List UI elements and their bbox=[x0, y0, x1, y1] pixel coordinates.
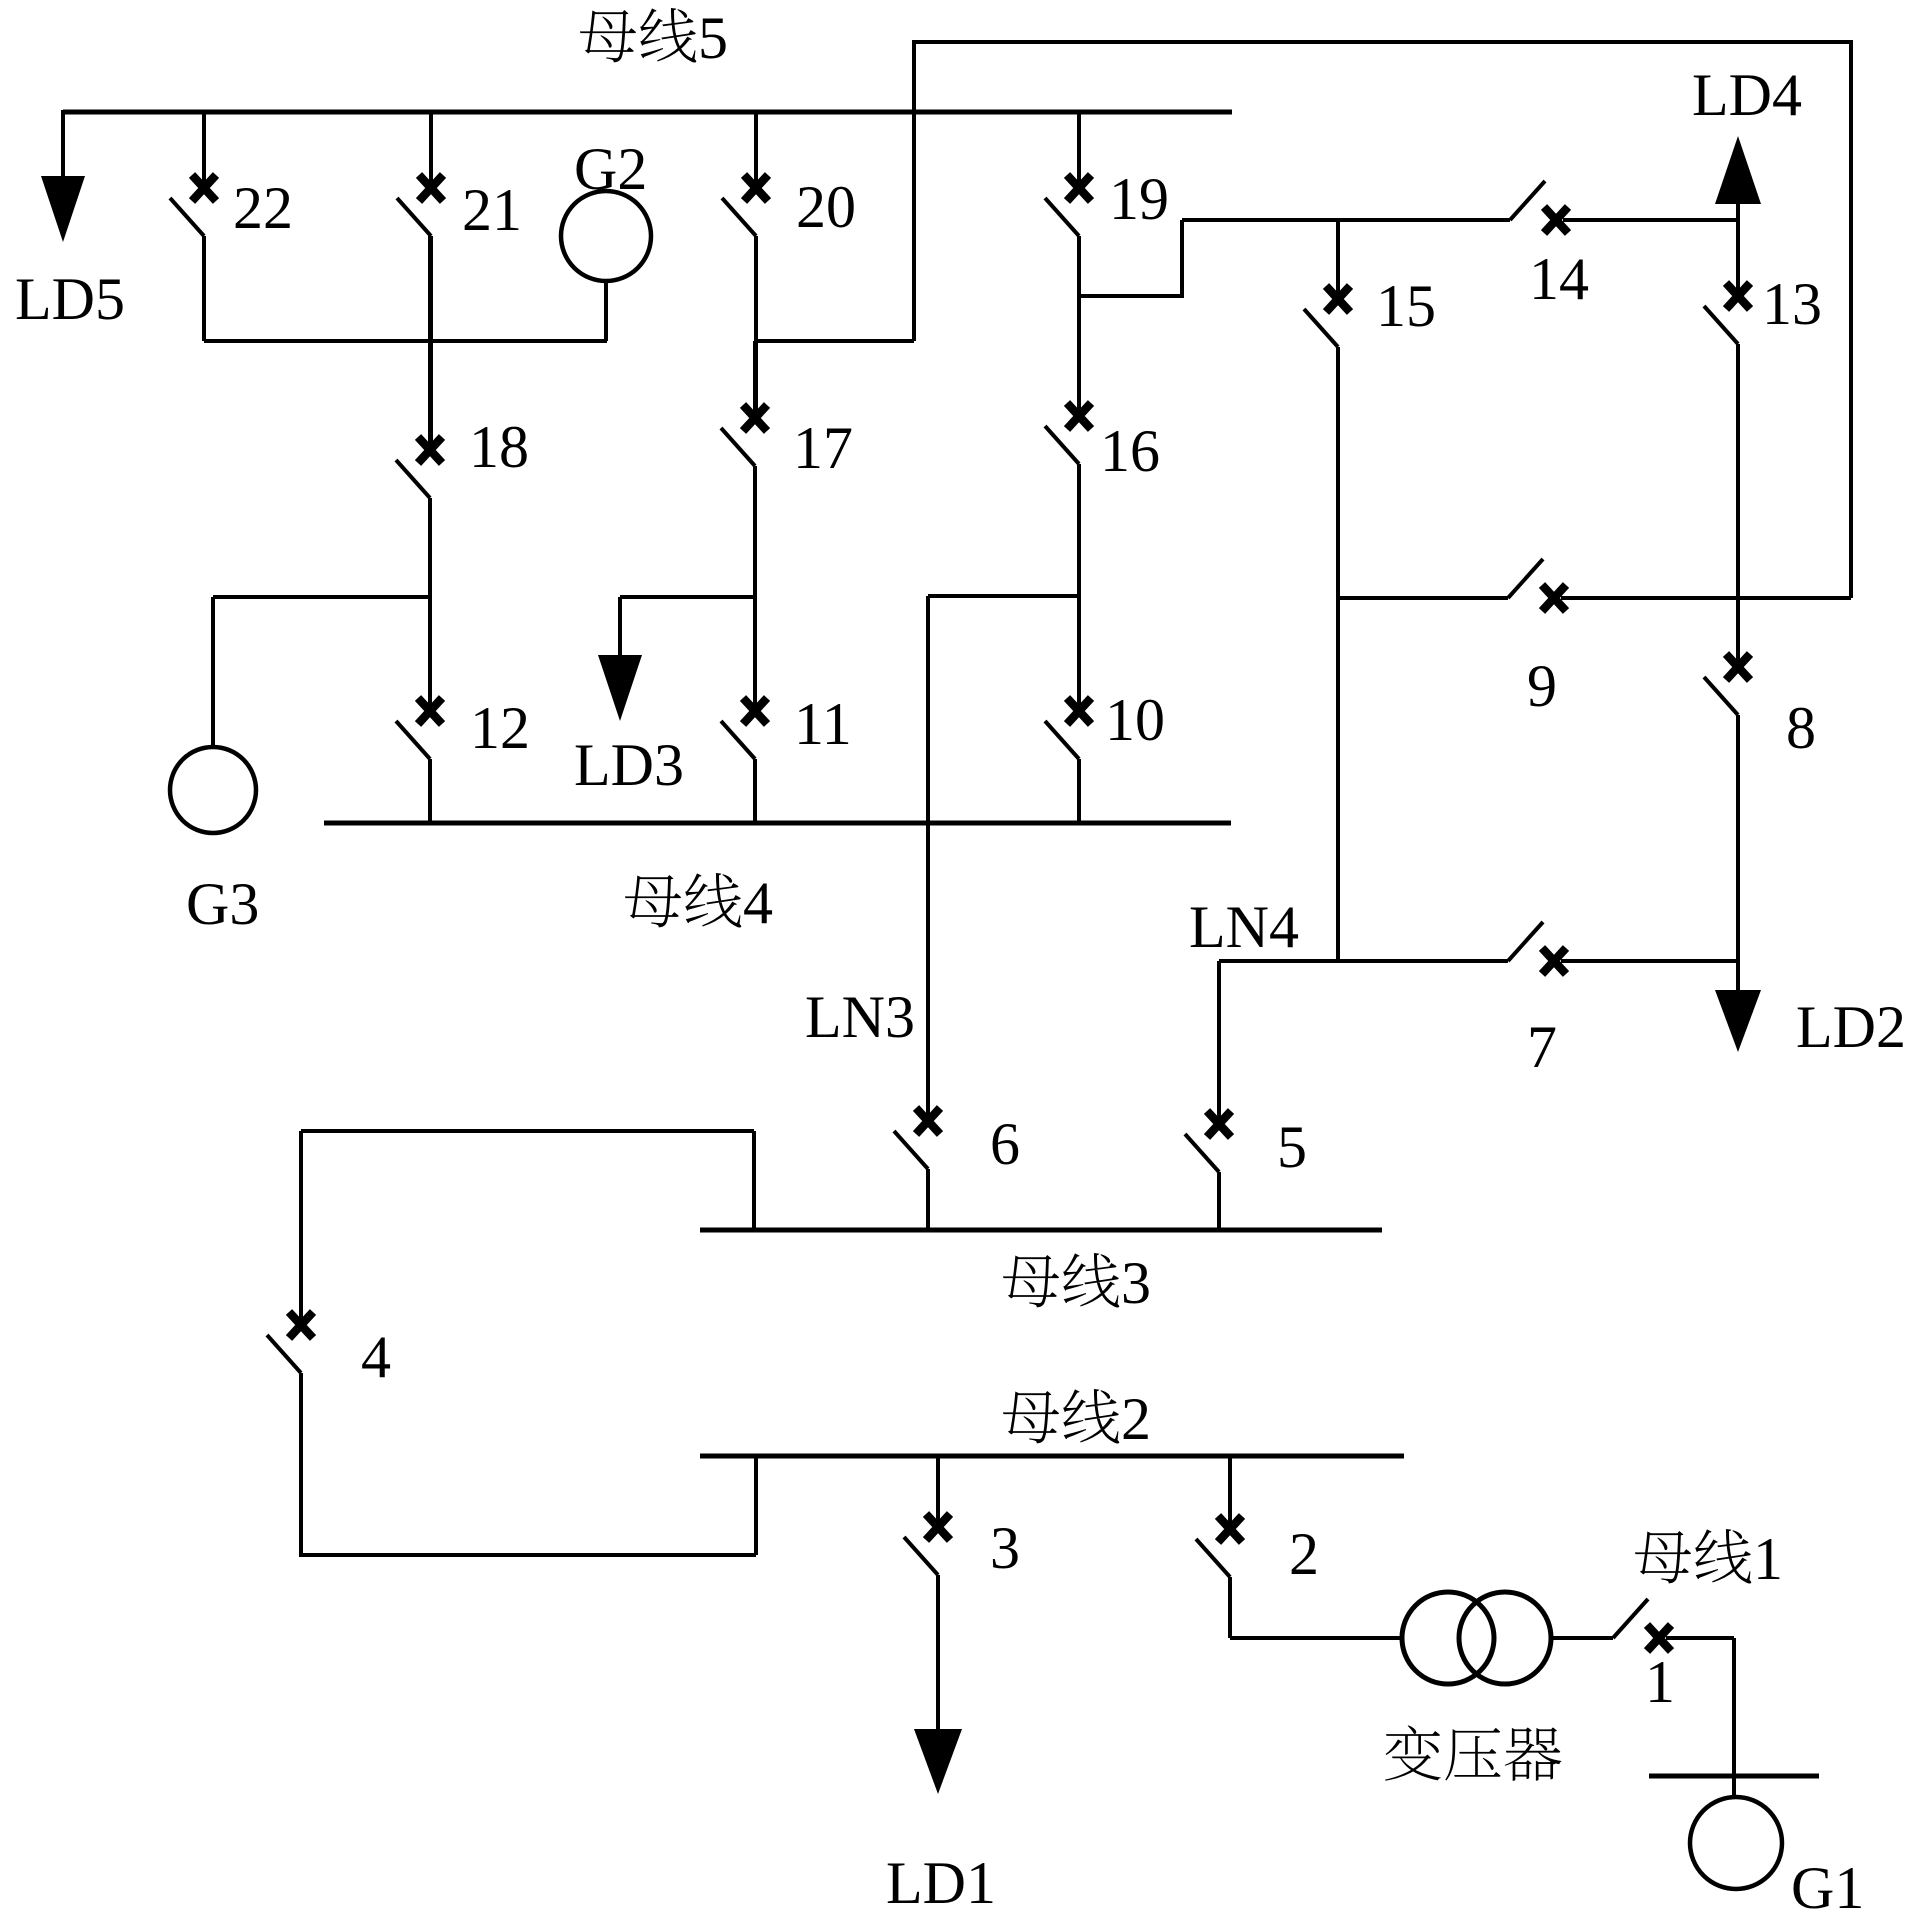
breaker 1 bbox=[1551, 1599, 1734, 1651]
breaker 7 bbox=[1219, 922, 1738, 974]
breaker 18 bbox=[396, 236, 442, 704]
svg-text:4: 4 bbox=[743, 870, 773, 936]
wire 2-to-transformer bbox=[1230, 1636, 1402, 1640]
svg-text:11: 11 bbox=[794, 691, 852, 757]
wire top link bus5-to-9line (horizontal) bbox=[914, 40, 1851, 44]
svg-text:16: 16 bbox=[1100, 418, 1160, 484]
bus 母线3 (bus3) bbox=[700, 1228, 1382, 1233]
svg-text:7: 7 bbox=[1527, 1014, 1557, 1080]
wire riser x=914 bus5 to top link bbox=[912, 40, 916, 341]
wire drop to bus1 bbox=[1732, 1638, 1736, 1797]
label bus 母线1 bbox=[1635, 1526, 1783, 1592]
generator G3 bbox=[170, 597, 256, 833]
svg-text:13: 13 bbox=[1762, 271, 1822, 337]
svg-text:1: 1 bbox=[1753, 1526, 1783, 1592]
label bus 母线3 bbox=[1003, 1250, 1151, 1316]
breaker 4 bbox=[267, 1312, 313, 1555]
breaker 11 bbox=[721, 698, 767, 823]
label bus 母线4 bbox=[625, 870, 773, 936]
breaker 22 bbox=[170, 112, 216, 341]
svg-text:LD1: LD1 bbox=[886, 1850, 996, 1913]
svg-text:5: 5 bbox=[698, 5, 728, 71]
bus 母线4 (bus4) bbox=[324, 821, 1231, 826]
wire line LN3 vertical bbox=[926, 596, 930, 1114]
generator G2 bbox=[561, 191, 651, 341]
svg-text:LD4: LD4 bbox=[1692, 62, 1802, 128]
breaker 19 bbox=[1045, 112, 1091, 296]
breaker 13 bbox=[1704, 220, 1750, 598]
breaker 14 bbox=[1182, 181, 1738, 233]
svg-text:5: 5 bbox=[1277, 1114, 1307, 1180]
wire LD3 tie to 17/11 string bbox=[620, 595, 755, 599]
svg-text:LN3: LN3 bbox=[805, 984, 915, 1050]
svg-text:G3: G3 bbox=[186, 871, 259, 937]
breaker 5 bbox=[1185, 961, 1231, 1230]
bus 母线5 (bus5) bbox=[63, 110, 1232, 115]
breaker 15 bbox=[1304, 220, 1350, 961]
label bus 母线5 bbox=[580, 5, 728, 71]
label bus 母线2 bbox=[1003, 1386, 1151, 1452]
breaker 6 bbox=[894, 1108, 940, 1230]
svg-text:20: 20 bbox=[796, 174, 856, 240]
breaker 9 bbox=[1338, 559, 1851, 611]
load LD1 arrow bbox=[914, 1729, 962, 1794]
wire segment A (22/21/G2 tie) bbox=[204, 339, 607, 343]
load LD5 arrow bbox=[41, 110, 85, 242]
breaker 21 bbox=[397, 112, 443, 443]
load LD4 arrow bbox=[1715, 136, 1761, 220]
svg-text:G2: G2 bbox=[574, 136, 647, 202]
svg-text:15: 15 bbox=[1376, 273, 1436, 339]
wire G3 tie to 18/12 string bbox=[213, 595, 430, 599]
breaker 3 bbox=[904, 1456, 950, 1731]
bus 母线1 (bus1) bar bbox=[1649, 1774, 1819, 1779]
wire bus3-bus2 loop bottom bbox=[299, 1456, 756, 1555]
svg-text:10: 10 bbox=[1105, 687, 1165, 753]
bus 母线2 (bus2) bbox=[700, 1454, 1404, 1459]
wire LN3 tie to 16/10 string bbox=[928, 594, 1081, 598]
wire right drop x=1851 bbox=[1849, 40, 1853, 598]
svg-text:19: 19 bbox=[1109, 166, 1169, 232]
svg-text:3: 3 bbox=[990, 1515, 1020, 1581]
svg-text:G1: G1 bbox=[1791, 1855, 1864, 1913]
breaker 20 bbox=[722, 112, 768, 411]
svg-text:8: 8 bbox=[1786, 695, 1816, 761]
svg-text:3: 3 bbox=[1121, 1250, 1151, 1316]
svg-text:17: 17 bbox=[793, 415, 853, 481]
svg-text:LD5: LD5 bbox=[15, 266, 125, 332]
svg-text:LN4: LN4 bbox=[1189, 894, 1299, 960]
generator G1 bbox=[1690, 1797, 1782, 1889]
load LD3 arrow bbox=[598, 597, 642, 721]
svg-text:12: 12 bbox=[470, 695, 530, 761]
svg-text:18: 18 bbox=[469, 414, 529, 480]
load LD2 arrow bbox=[1715, 961, 1761, 1052]
wire bus3-bus2 loop top bbox=[301, 1131, 754, 1318]
breaker 10 bbox=[1045, 698, 1091, 823]
svg-text:LD3: LD3 bbox=[574, 732, 684, 798]
svg-text:1: 1 bbox=[1645, 1649, 1675, 1715]
svg-text:4: 4 bbox=[361, 1324, 391, 1390]
wire segment B (20 tie to riser) bbox=[756, 339, 914, 343]
svg-text:21: 21 bbox=[462, 177, 522, 243]
svg-text:9: 9 bbox=[1527, 653, 1557, 719]
transformer 变压器 (two-winding) bbox=[1402, 1592, 1551, 1684]
wire jog horizontal below 19 bbox=[1079, 294, 1182, 298]
breaker 17 bbox=[721, 341, 767, 706]
breaker 12 bbox=[396, 698, 442, 823]
breaker 16 bbox=[1045, 296, 1091, 704]
svg-text:LD2: LD2 bbox=[1796, 994, 1906, 1060]
svg-text:6: 6 bbox=[990, 1111, 1020, 1177]
svg-text:2: 2 bbox=[1289, 1521, 1319, 1587]
breaker 2 bbox=[1196, 1456, 1242, 1638]
wire jog vertical to 14-line bbox=[1180, 220, 1184, 298]
svg-text:14: 14 bbox=[1529, 246, 1589, 312]
svg-text:22: 22 bbox=[233, 175, 293, 241]
label transformer 变压器 bbox=[1385, 1725, 1561, 1780]
breaker 8 bbox=[1704, 598, 1750, 961]
svg-text:2: 2 bbox=[1121, 1386, 1151, 1452]
